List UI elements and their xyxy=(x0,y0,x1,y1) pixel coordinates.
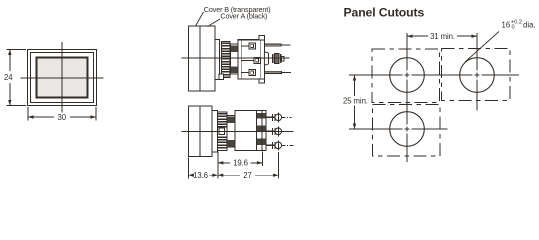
cutout square top-right xyxy=(442,48,510,100)
svg-text:dia.: dia. xyxy=(523,21,536,30)
side view: anti-rotation key xyxy=(219,128,225,134)
cutout hole bottom-left xyxy=(390,112,425,147)
svg-text:30: 30 xyxy=(58,113,67,122)
side view: collar xyxy=(212,111,218,153)
top view: anti-rotation key xyxy=(219,74,224,80)
svg-text:13.6: 13.6 xyxy=(193,171,208,180)
dimension 25 min. xyxy=(343,75,368,129)
svg-text:0: 0 xyxy=(512,25,515,31)
side view: terminal block xyxy=(257,111,267,151)
top view: lower mounting tab xyxy=(259,79,265,83)
svg-text:31 min.: 31 min. xyxy=(430,32,455,41)
top view: ring step xyxy=(231,44,239,74)
centerline horizontal through bottom hole xyxy=(349,128,448,130)
svg-text:Panel Cutouts: Panel Cutouts xyxy=(344,6,425,20)
dimension 19.6 xyxy=(218,152,263,179)
top view: lamp bayonet base xyxy=(273,54,284,64)
top view: lower terminal pin xyxy=(265,71,292,73)
front view: outer bezel xyxy=(28,50,97,106)
top view: lamp socket boss xyxy=(264,52,268,64)
cutout square bottom-left xyxy=(372,105,440,156)
centerline vertical left column xyxy=(406,33,408,162)
front view: middle bezel xyxy=(31,53,94,103)
svg-text:25 min.: 25 min. xyxy=(343,97,368,106)
top view: upper mounting tab xyxy=(259,36,265,40)
svg-text:16: 16 xyxy=(502,21,511,30)
cutout hole top-left xyxy=(390,58,425,93)
svg-text:24: 24 xyxy=(4,73,13,82)
centerline vertical top-right hole xyxy=(476,33,478,111)
side view: screw terminals xyxy=(266,112,294,150)
label: 16 +0.2/0 dia. xyxy=(502,20,536,31)
centerline horizontal through top holes xyxy=(349,74,519,76)
side view: centerline xyxy=(182,130,294,132)
side view: ring step xyxy=(227,116,235,148)
dimension 27 xyxy=(218,152,279,180)
leader line to Cover A label xyxy=(208,19,221,27)
dimension 30 (width) xyxy=(28,107,96,122)
svg-text:27: 27 xyxy=(243,171,251,180)
side view: cover joint xyxy=(199,106,201,157)
top view: knurled mounting ring xyxy=(222,42,231,78)
top view: upper terminal pin xyxy=(265,44,291,46)
svg-text:19.6: 19.6 xyxy=(233,159,248,168)
dimension 24 (height) xyxy=(4,50,26,106)
dimension 31 min. xyxy=(407,32,477,41)
top view: switch body xyxy=(238,40,265,79)
dimension 13.6 xyxy=(188,157,217,180)
front view: vertical centerline xyxy=(61,42,63,113)
svg-text:Cover A (black): Cover A (black) xyxy=(220,12,267,21)
side view: cover outline xyxy=(188,106,212,157)
cutout square top-left xyxy=(372,49,439,102)
cutout hole top-right xyxy=(460,58,495,93)
side view: knurled mounting ring xyxy=(218,112,228,151)
leader line to Cover B label xyxy=(196,12,204,26)
side view: switch body xyxy=(235,111,257,151)
top view: centerline xyxy=(182,57,290,59)
top view: collar xyxy=(215,40,220,80)
top view: cover A/B joint xyxy=(199,26,201,91)
top view: terminal contacts xyxy=(241,43,260,76)
top view: cover outline xyxy=(189,26,216,91)
front view: horizontal centerline xyxy=(21,77,104,79)
leader line to dia. label xyxy=(465,32,499,62)
front view: button face xyxy=(37,58,88,98)
side view: wire loop at body bottom corner xyxy=(257,144,262,149)
